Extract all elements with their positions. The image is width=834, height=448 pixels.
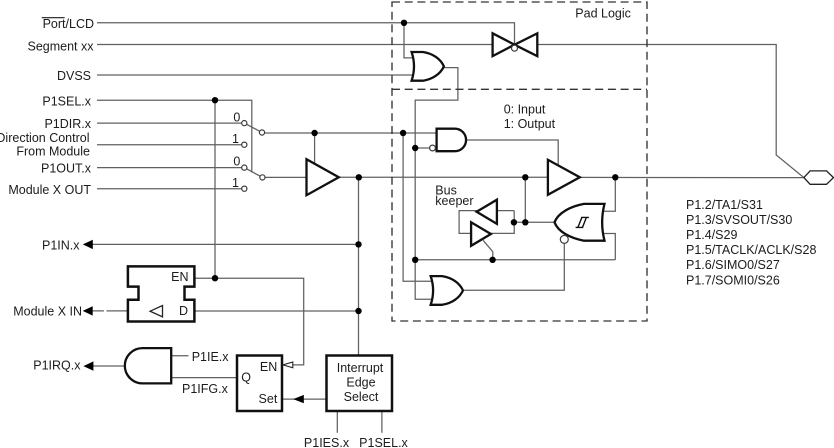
svg-text:P1.3/SVSOUT/S30: P1.3/SVSOUT/S30 — [686, 213, 792, 227]
svg-text:P1IFG.x: P1IFG.x — [182, 382, 229, 396]
svg-text:DVSS: DVSS — [57, 69, 91, 83]
svg-text:Q: Q — [241, 371, 251, 385]
svg-text:P1.7/SOMI0/S26: P1.7/SOMI0/S26 — [686, 273, 780, 287]
svg-text:P1.5/TACLK/ACLK/S28: P1.5/TACLK/ACLK/S28 — [686, 243, 816, 257]
svg-text:Port/LCD: Port/LCD — [43, 17, 94, 31]
svg-text:P1SEL.x: P1SEL.x — [359, 436, 408, 448]
svg-text:EN: EN — [260, 360, 277, 374]
svg-text:Module X OUT: Module X OUT — [8, 183, 91, 197]
svg-text:0: 0 — [233, 154, 240, 168]
svg-text:P1SEL.x: P1SEL.x — [42, 95, 91, 109]
svg-text:keeper: keeper — [435, 194, 473, 208]
svg-text:P1IN.x: P1IN.x — [42, 238, 80, 252]
svg-text:Edge: Edge — [346, 376, 375, 390]
svg-text:P1IE.x: P1IE.x — [192, 350, 230, 364]
svg-text:P1IRQ.x: P1IRQ.x — [33, 358, 81, 372]
svg-text:P1.2/TA1/S31: P1.2/TA1/S31 — [686, 198, 763, 212]
svg-text:P1.6/SIMO0/S27: P1.6/SIMO0/S27 — [686, 258, 780, 272]
svg-text:1: 1 — [232, 132, 239, 146]
svg-text:D: D — [179, 304, 188, 318]
svg-text:Pad Logic: Pad Logic — [575, 6, 631, 20]
svg-text:Module X IN: Module X IN — [13, 305, 82, 319]
svg-text:Segment xx: Segment xx — [27, 39, 94, 53]
svg-text:Interrupt: Interrupt — [337, 361, 384, 375]
svg-text:P1OUT.x: P1OUT.x — [41, 162, 92, 176]
svg-text:Set: Set — [259, 392, 278, 406]
svg-text:1: 1 — [232, 176, 239, 190]
svg-text:EN: EN — [171, 270, 188, 284]
svg-text:Select: Select — [344, 390, 379, 404]
svg-text:P1DIR.x: P1DIR.x — [44, 117, 91, 131]
svg-text:0: 0 — [233, 111, 240, 125]
svg-text:From Module: From Module — [16, 145, 90, 159]
svg-text:P1IES.x: P1IES.x — [304, 436, 350, 448]
svg-text:P1.4/S29: P1.4/S29 — [686, 228, 737, 242]
svg-text:1: Output: 1: Output — [504, 117, 556, 131]
svg-text:Direction Control: Direction Control — [0, 131, 90, 145]
svg-text:0: Input: 0: Input — [504, 102, 546, 116]
